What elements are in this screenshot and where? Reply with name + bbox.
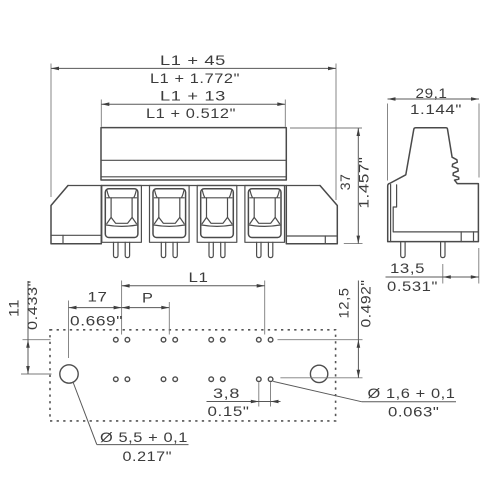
svg-text:L1 + 13: L1 + 13 <box>160 88 226 104</box>
label 13,5 mm <box>390 260 425 276</box>
solder pins module 4 <box>257 242 273 257</box>
label diameter 1,6+0,1 <box>368 385 456 401</box>
label P <box>142 290 154 306</box>
front view housing inner line upper <box>101 159 286 161</box>
svg-text:0.669": 0.669" <box>70 313 123 329</box>
svg-text:L1 + 0.512": L1 + 0.512" <box>146 105 236 121</box>
terminal clamp module 2 <box>150 186 190 243</box>
terminal clamp module 4 <box>245 186 285 243</box>
label L1 <box>189 269 209 285</box>
label 0.063 inch <box>388 404 440 420</box>
pin holes row 1 <box>114 337 273 342</box>
side view body outline <box>388 128 479 242</box>
dimension line 11 <box>26 281 30 374</box>
svg-text:0.531": 0.531" <box>387 278 438 294</box>
terminal clamp module 3 <box>197 186 237 243</box>
label 3,8 mm <box>213 385 240 401</box>
label L1+0.512 inch <box>146 105 236 121</box>
dimension 17 and P extension lines <box>69 301 170 359</box>
label 0.669 inch <box>70 313 123 329</box>
label 0.492 inch <box>358 280 374 328</box>
pin holes row 2 <box>114 377 273 382</box>
svg-text:L1 + 45: L1 + 45 <box>160 52 226 68</box>
dimension 11 extension lines <box>21 340 52 374</box>
label L1+13 mm <box>160 88 226 104</box>
dimension line 13.5 <box>386 275 480 279</box>
terminal clamp module 1 <box>102 186 142 243</box>
mounting hole left <box>60 365 78 383</box>
svg-text:0.063": 0.063" <box>388 404 440 420</box>
solder pins module 1 <box>114 242 130 257</box>
svg-text:0.15": 0.15" <box>208 403 250 419</box>
dimension 37 extension lines <box>290 128 363 244</box>
label 0.433 inch <box>24 280 40 330</box>
leader line pin hole diameter <box>273 381 456 401</box>
svg-text:0.217": 0.217" <box>123 448 173 464</box>
label L1+1.772 inch <box>150 70 240 86</box>
label 12,5 mm <box>336 288 352 319</box>
front view mounting rail line <box>68 185 320 187</box>
side view pin left <box>401 242 405 258</box>
dimension L1+13 extension lines <box>101 100 285 127</box>
dimension line 3.8 <box>207 400 281 404</box>
label diameter 5,5+0,1 <box>100 429 188 445</box>
leader line mounting hole diameter <box>73 382 189 445</box>
label 1.457 inch <box>356 157 372 209</box>
dimension line L1+45 <box>51 67 336 71</box>
svg-text:11: 11 <box>6 299 22 317</box>
side view inner contour <box>391 185 479 242</box>
label 29,1 mm <box>416 85 448 101</box>
label 37 mm <box>337 174 353 191</box>
dimension line 29.1 <box>388 97 480 101</box>
dimension line 12.5 <box>357 281 361 378</box>
svg-text:P: P <box>142 290 154 306</box>
svg-text:37: 37 <box>337 174 353 191</box>
dimension L1 extension lines <box>122 281 265 335</box>
label 1.144 inch <box>410 101 462 117</box>
side view bottom-right detail box <box>461 232 473 242</box>
dimension 3.8 extension lines <box>259 382 271 406</box>
dimension line L1 <box>122 284 265 288</box>
dimension 12.5 extension lines <box>278 340 363 378</box>
side view pin right <box>441 242 445 258</box>
svg-text:12,5: 12,5 <box>336 288 352 319</box>
front view housing outline <box>101 128 286 180</box>
front view right flange <box>286 186 337 244</box>
label 17 mm <box>88 289 108 305</box>
PCB outline dashed rectangle <box>50 330 336 421</box>
svg-text:29,1: 29,1 <box>416 85 448 101</box>
svg-text:L1 + 1.772": L1 + 1.772" <box>150 70 240 86</box>
dimension line 17 and P <box>69 306 170 310</box>
svg-text:Ø 1,6 + 0,1: Ø 1,6 + 0,1 <box>368 385 456 401</box>
dimension line 37 <box>357 128 361 244</box>
front view housing inner line lower <box>101 176 286 178</box>
label L1+45 mm <box>160 52 226 68</box>
solder pins module 2 <box>161 242 177 257</box>
svg-text:13,5: 13,5 <box>390 260 425 276</box>
svg-text:L1: L1 <box>189 269 209 285</box>
dimension L1+45 extension lines <box>51 64 336 201</box>
svg-text:1.457": 1.457" <box>356 157 372 209</box>
dimension line L1+13 <box>101 102 285 106</box>
svg-text:0.492": 0.492" <box>358 280 374 328</box>
svg-text:Ø 5,5 + 0,1: Ø 5,5 + 0,1 <box>100 429 188 445</box>
svg-text:3,8: 3,8 <box>213 385 240 401</box>
label 0.217 inch <box>123 448 173 464</box>
label 0.531 inch <box>387 278 438 294</box>
dimension 13.5 extension lines <box>443 248 479 284</box>
svg-text:1.144": 1.144" <box>410 101 462 117</box>
label 0.15 inch <box>208 403 250 419</box>
front view left flange <box>51 186 101 244</box>
svg-text:17: 17 <box>88 289 108 305</box>
solder pins module 3 <box>209 242 225 257</box>
svg-text:0.433": 0.433" <box>24 280 40 330</box>
dimension 29.1 extension lines <box>388 104 480 181</box>
mounting hole right <box>310 365 327 382</box>
label 11 mm <box>6 299 22 317</box>
